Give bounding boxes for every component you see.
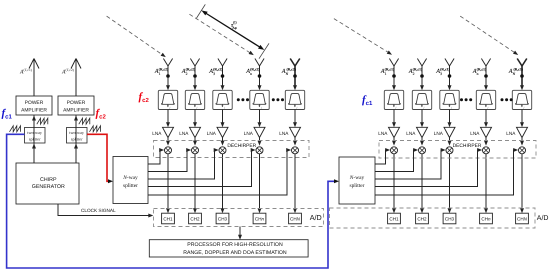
LNA amplifier right2 <box>417 127 428 137</box>
LNA amplifier right3 <box>444 127 455 137</box>
mixer right5 <box>519 147 526 154</box>
node feed dot right5 <box>520 74 524 78</box>
wire splitter to mixer left3 <box>148 148 219 179</box>
svg-text:CHn: CHn <box>481 217 491 222</box>
wire filter to LNA left3 <box>221 110 225 128</box>
svg-text:LNA: LNA <box>244 131 254 136</box>
wire filter to LNA left4 <box>258 110 262 128</box>
label LNA right5 <box>506 131 516 136</box>
wire chirp generator to splitter1 <box>32 144 36 164</box>
LNA amplifier left2 <box>190 127 201 137</box>
svg-text:DECHIRPER: DECHIRPER <box>227 143 256 149</box>
wire mixer to ADC channel right5 <box>520 154 524 213</box>
wire splitter to mixer left1 <box>148 148 164 164</box>
ADC channel CHn left <box>253 213 266 224</box>
ADC channel CHN left <box>289 213 302 224</box>
wire antenna to filter right3 <box>448 85 452 90</box>
wire antenna to filter right2 <box>420 85 424 90</box>
ADC channel CH1 left <box>162 213 175 224</box>
wire fc2 reference (red) <box>87 134 113 183</box>
wire mixer to ADC channel right3 <box>448 154 452 213</box>
label DECHIRPER left <box>227 143 256 149</box>
wire LNA to mixer right4 <box>484 138 488 146</box>
ellipsis dots right array a <box>460 98 472 101</box>
svg-text:CHN: CHN <box>290 217 301 222</box>
label LNA left3 <box>207 131 217 136</box>
wire fc1 reference (blue) <box>7 134 339 268</box>
tick mark 2 <box>259 43 269 58</box>
svg-text:splitter: splitter <box>123 183 138 189</box>
chirp waveform icon on blue wire <box>10 126 21 132</box>
label LNA right1 <box>378 131 388 136</box>
LNA amplifier right5 <box>517 127 528 137</box>
label LNA left5 <box>279 131 289 136</box>
wire splitter to mixer right3 <box>375 148 446 179</box>
svg-text:splitter: splitter <box>350 183 365 189</box>
bandpass filter left1 <box>158 90 177 109</box>
svg-text:two-way: two-way <box>69 130 85 135</box>
mixer left2 <box>192 147 199 154</box>
svg-text:N-way: N-way <box>349 175 365 181</box>
label AN(R,c2) <box>281 68 297 76</box>
label fc1 (blue) <box>2 108 13 121</box>
label A3(R,c1) <box>435 68 450 76</box>
bandpass filter right5 <box>512 90 531 109</box>
label LNA right3 <box>434 131 444 136</box>
label A1(R,c1) <box>380 68 395 76</box>
node feed dot left1 <box>166 74 170 78</box>
bandpass filter left4 <box>250 90 269 109</box>
antenna A(T,c1) transmit <box>29 59 39 97</box>
LNA amplifier left1 <box>163 127 174 137</box>
svg-text:RANGE, DOPPLER AND DOA ESTIMAT: RANGE, DOPPLER AND DOA ESTIMATION <box>183 250 287 256</box>
svg-text:CH3: CH3 <box>218 217 228 222</box>
wire splitter to mixer right4 <box>375 148 482 187</box>
svg-text:PROCESSOR FOR HIGH-RESOLUTION: PROCESSOR FOR HIGH-RESOLUTION <box>187 242 283 248</box>
wire LNA to mixer right1 <box>392 138 396 146</box>
wire A/D to processor <box>238 227 242 240</box>
label An(R,c2) <box>245 68 260 76</box>
wire splitter to mixer left4 <box>148 148 256 187</box>
two-way splitter S1 <box>25 128 46 144</box>
wire filter to LNA right4 <box>484 110 488 128</box>
svg-text:AMPLIFIER: AMPLIFIER <box>21 108 47 114</box>
svg-text:LNA: LNA <box>279 131 289 136</box>
label fc1 right array (blue) <box>362 94 373 107</box>
wire filter to LNA right5 <box>520 110 524 128</box>
N-way splitter left <box>113 157 148 204</box>
node feed dot left3 <box>221 74 225 78</box>
label A2(R,c1) <box>408 68 423 76</box>
svg-text:CHn: CHn <box>255 217 265 222</box>
chirp generator <box>16 163 79 204</box>
wire filter to LNA left2 <box>193 110 197 128</box>
LNA amplifier left5 <box>290 127 301 137</box>
ADC channel CH2 left <box>189 213 202 224</box>
wire antenna to filter left4 <box>258 85 262 90</box>
mixer right2 <box>419 147 426 154</box>
label fc2 (red) <box>96 108 107 121</box>
wire antenna to filter right1 <box>392 85 396 90</box>
label A/D right <box>537 214 549 222</box>
svg-text:CLOCK SIGNAL: CLOCK SIGNAL <box>81 208 116 213</box>
dashed ray to antenna A1 (left array) <box>107 16 166 57</box>
mixer right1 <box>391 147 398 154</box>
label CLOCK SIGNAL <box>81 208 116 213</box>
dechirper dashed box left <box>154 141 310 158</box>
label A1(R,c2) <box>154 68 169 76</box>
wire mixer to ADC channel left3 <box>221 154 225 213</box>
wire antenna to filter left2 <box>193 85 197 90</box>
A/D dashed box right <box>330 208 536 228</box>
bandpass filter left2 <box>185 90 204 109</box>
svg-text:POWER: POWER <box>67 100 86 106</box>
processor box <box>149 240 308 257</box>
svg-text:GENERATOR: GENERATOR <box>32 184 65 190</box>
LNA amplifier left3 <box>217 127 228 137</box>
mixer left1 <box>165 147 172 154</box>
svg-text:A/D: A/D <box>310 213 322 222</box>
svg-text:splitter: splitter <box>29 137 41 142</box>
wire splitter to mixer left2 <box>148 148 191 172</box>
ADC channel CH3 right <box>443 213 456 224</box>
label A/D left <box>310 213 322 222</box>
label A3(R,c2) <box>208 68 223 76</box>
svg-text:τ(i)Δφ: τ(i)Δφ <box>231 20 237 30</box>
ellipsis dots left array b <box>272 98 284 101</box>
svg-text:LNA: LNA <box>506 131 516 136</box>
path-difference arrow tau <box>201 10 264 50</box>
svg-text:LNA: LNA <box>179 131 189 136</box>
wire LNA to mixer left4 <box>258 138 262 146</box>
ADC channel CH1 right <box>388 213 401 224</box>
svg-text:LNA: LNA <box>434 131 444 136</box>
svg-text:LNA: LNA <box>470 131 480 136</box>
label LNA right4 <box>470 131 480 136</box>
label LNA left4 <box>244 131 254 136</box>
antenna ANR,c2 left <box>290 59 300 88</box>
antenna A1R,c2 left <box>163 59 172 88</box>
power amplifier PA2 <box>58 96 94 115</box>
wire LNA to mixer left3 <box>221 138 225 146</box>
wire LNA to mixer left5 <box>293 138 297 146</box>
chirp waveform icon on red wire <box>90 126 101 132</box>
label AN(R,c1) <box>508 68 524 76</box>
node feed dot right1 <box>392 74 396 78</box>
ADC channel CHn right <box>480 213 493 224</box>
wire mixer to ADC channel left5 <box>293 154 297 213</box>
wire mixer to ADC channel left1 <box>166 154 170 213</box>
label A(T,c2) <box>61 68 75 75</box>
bandpass filter right2 <box>412 90 431 109</box>
wire filter to LNA right2 <box>420 110 424 128</box>
label tau <box>231 20 237 30</box>
wire clock signal <box>58 204 153 218</box>
wire mixer to ADC channel left2 <box>193 154 197 213</box>
label LNA left2 <box>179 131 189 136</box>
svg-text:AMPLIFIER: AMPLIFIER <box>63 108 89 114</box>
svg-text:CHIRP: CHIRP <box>40 177 57 183</box>
ADC channel CH2 right <box>416 213 429 224</box>
power amplifier PA1 <box>16 96 52 115</box>
mixer left4 <box>256 147 263 154</box>
two-way splitter S2 <box>67 128 88 144</box>
wire filter to LNA left5 <box>293 110 297 128</box>
svg-text:A/D: A/D <box>537 214 549 222</box>
bandpass filter left3 <box>213 90 232 109</box>
A/D dashed box left <box>154 209 324 227</box>
ellipsis dots left array a <box>237 98 249 101</box>
antenna A1R,c1 right <box>389 59 398 88</box>
wire splitter to mixer right5 <box>375 148 518 195</box>
mixer right3 <box>446 147 453 154</box>
antenna AnR,c2 left <box>255 59 264 88</box>
svg-text:LNA: LNA <box>378 131 388 136</box>
mixer left3 <box>219 147 226 154</box>
wire mixer to ADC channel right4 <box>484 154 488 213</box>
wire filter to LNA right1 <box>392 110 396 128</box>
antenna ANR,c1 right <box>517 59 527 88</box>
svg-text:CH3: CH3 <box>445 217 455 222</box>
antenna AnR,c1 right <box>481 59 490 88</box>
N-way splitter right <box>339 157 375 204</box>
label A2(R,c2) <box>181 68 196 76</box>
chirp waveform icon 2 <box>79 118 90 124</box>
bandpass filter right3 <box>440 90 459 109</box>
wire splitter to mixer left5 <box>148 148 291 195</box>
wire filter to LNA right3 <box>448 110 452 128</box>
svg-text:CHN: CHN <box>517 217 528 222</box>
antenna A3R,c2 left <box>218 59 227 88</box>
wire mixer to ADC channel right1 <box>392 154 396 213</box>
svg-text:two-way: two-way <box>27 130 43 135</box>
dashed ray to antenna A1 (right array) <box>334 19 392 55</box>
wire antenna to filter right4 <box>484 85 488 90</box>
bandpass filter right1 <box>384 90 403 109</box>
wire chirp generator to splitter2 <box>74 144 78 164</box>
node feed dot right4 <box>484 74 488 78</box>
label fc2 left array (red) <box>139 91 150 104</box>
wire LNA to mixer right2 <box>420 138 424 146</box>
label LNA right2 <box>406 131 416 136</box>
LNA amplifier left4 <box>254 127 265 137</box>
wire antenna to filter left1 <box>166 85 170 90</box>
wire LNA to mixer left1 <box>166 138 170 146</box>
wire antenna to filter left5 <box>293 85 297 90</box>
node feed dot left4 <box>258 74 262 78</box>
antenna A(T,c2) transmit <box>71 59 81 97</box>
node feed dot right3 <box>448 74 452 78</box>
mixer left5 <box>292 147 299 154</box>
bandpass filter right4 <box>476 90 495 109</box>
svg-text:splitter: splitter <box>71 137 83 142</box>
ADC channel CH3 left <box>216 213 229 224</box>
label DECHIRPER right <box>453 143 482 149</box>
wire antenna to filter left3 <box>221 85 225 90</box>
label A(T,c1) <box>19 68 33 75</box>
wire mixer to ADC channel right2 <box>420 154 424 213</box>
wire mixer to ADC channel left4 <box>258 154 262 213</box>
svg-text:CH2: CH2 <box>190 217 200 222</box>
LNA amplifier right1 <box>389 127 400 137</box>
antenna A3R,c1 right <box>445 59 454 88</box>
ADC channel CHN right <box>516 213 529 224</box>
node feed dot left2 <box>193 74 197 78</box>
svg-text:CH2: CH2 <box>417 217 427 222</box>
chirp waveform icon 1 <box>37 118 48 124</box>
antenna A2R,c2 left <box>190 59 199 88</box>
ellipsis dots right array b <box>501 98 513 101</box>
wire antenna to filter right5 <box>520 85 524 90</box>
wire splitter to mixer right2 <box>375 148 418 172</box>
dashed ray to antenna AN (right array) <box>460 16 518 55</box>
svg-text:LNA: LNA <box>406 131 416 136</box>
node feed dot right2 <box>420 74 424 78</box>
tick mark 1 <box>197 4 206 18</box>
svg-text:LNA: LNA <box>152 131 162 136</box>
svg-text:POWER: POWER <box>25 100 44 106</box>
wire LNA to mixer left2 <box>193 138 197 146</box>
label An(R,c1) <box>472 68 487 76</box>
svg-text:N-way: N-way <box>122 175 138 181</box>
svg-text:CH1: CH1 <box>389 217 399 222</box>
svg-text:LNA: LNA <box>207 131 217 136</box>
mixer right4 <box>483 147 490 154</box>
wire splitter to mixer right1 <box>375 148 390 164</box>
wire LNA to mixer right5 <box>520 138 524 146</box>
bandpass filter left5 <box>285 90 304 109</box>
wire splitter2 to PA2 <box>74 116 78 144</box>
label LNA left1 <box>152 131 162 136</box>
svg-text:CH1: CH1 <box>163 217 173 222</box>
dashed wavefront ray to antenna An (left array) <box>189 14 253 55</box>
wire LNA to mixer right3 <box>448 138 452 146</box>
antenna A2R,c1 right <box>417 59 426 88</box>
LNA amplifier right4 <box>481 127 492 137</box>
node feed dot left5 <box>293 74 297 78</box>
wire splitter1 to PA1 <box>32 116 36 144</box>
dechirper dashed box right <box>379 141 536 159</box>
wire filter to LNA left1 <box>166 110 170 128</box>
